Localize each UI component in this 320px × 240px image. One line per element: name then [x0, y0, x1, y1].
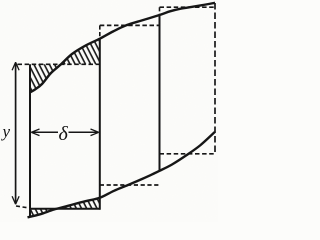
shared vertical edge (solid) left/middle rectangles: [99, 39, 101, 210]
paper grain: [0, 0, 218, 222]
link dash bottom arrow: [16, 206, 27, 208]
dashed stub above curve at x=99.8: [99, 25, 101, 37]
hatched region top-left of left rectangle: [30, 64, 61, 92]
dashed stub above curve at x=159.5: [159, 7, 161, 14]
upper curve: [30, 3, 215, 93]
left rectangle: left edge (solid): [29, 64, 31, 216]
middle rectangle: top edge (dashed): [100, 24, 160, 26]
hatched region top-right of left rectangle: [61, 39, 100, 65]
left rectangle: bottom edge (solid): [29, 208, 100, 210]
y dimension arrow (vertical, double headed): [15, 63, 17, 204]
right rectangle: bottom edge (dashed): [160, 153, 216, 155]
lower curve: [28, 132, 215, 217]
left rectangle: top edge (dashed) incl. link to arrow: [18, 63, 100, 65]
delta dimension arrow (horizontal, double headed): [32, 131, 59, 133]
hatched region bottom-left below base line: [30, 209, 57, 217]
right rectangle: top edge (dashed): [160, 6, 216, 8]
right rectangle: right edge (dashed): [214, 3, 216, 154]
shared vertical edge (solid) middle/right rectangles: [159, 15, 161, 171]
middle rectangle: bottom edge (dashed): [100, 184, 160, 186]
hatched region bottom-right above base line: [57, 198, 100, 209]
